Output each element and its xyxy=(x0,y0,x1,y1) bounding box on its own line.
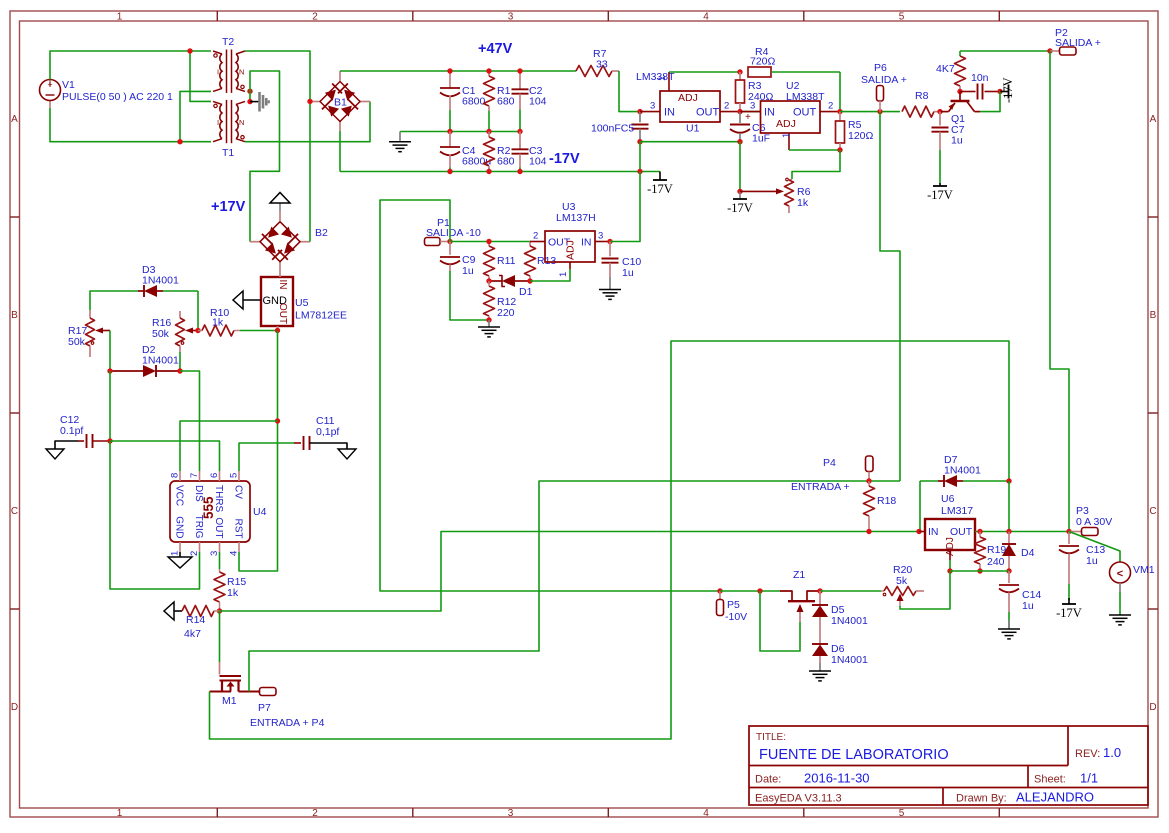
svg-text:R8: R8 xyxy=(915,90,929,102)
diode D6 1N4001 xyxy=(812,643,868,666)
svg-text:OUT: OUT xyxy=(950,526,973,538)
diode D4 xyxy=(1002,532,1035,572)
resistor R3 240ohm xyxy=(736,72,774,112)
ground below C14 xyxy=(998,620,1020,639)
wire mid rail from ground xyxy=(400,131,520,133)
svg-text:IN: IN xyxy=(928,526,939,538)
pin 3 U4 xyxy=(209,542,220,556)
svg-text:Sheet:: Sheet: xyxy=(1034,774,1066,786)
junction R15/R14 node xyxy=(217,608,222,613)
svg-text:B: B xyxy=(11,310,18,321)
wire diagonal to VM1 xyxy=(1069,532,1120,563)
resistor R19 240 xyxy=(975,532,1007,572)
ground below R12 xyxy=(478,320,500,337)
svg-text:120Ω: 120Ω xyxy=(848,130,874,142)
wire B2 bottom to U5 IN xyxy=(279,270,281,277)
connector P4 ENTRADA+ xyxy=(791,456,873,493)
junction C6 bottom xyxy=(737,139,742,144)
svg-text:1uF: 1uF xyxy=(752,133,770,145)
wire U5 OUT down to VCC rail and 555 pin4 loop xyxy=(239,331,278,572)
diode D2 1N4001 xyxy=(110,344,180,377)
ground at mid rail xyxy=(389,132,411,152)
wire P1 up-left-down to Z1 rail xyxy=(380,200,720,591)
svg-text:5: 5 xyxy=(899,808,905,819)
wire -17V bottom rail xyxy=(340,171,660,173)
svg-text:Drawn By:: Drawn By: xyxy=(956,793,1007,805)
svg-text:I: I xyxy=(217,68,219,77)
junction D2 right xyxy=(177,368,182,373)
svg-text:220: 220 xyxy=(497,307,515,319)
connector P5 -10V xyxy=(717,591,748,623)
svg-text:T2: T2 xyxy=(222,36,234,48)
wire U3 OUT rail xyxy=(450,241,530,243)
junction V1 bottom node xyxy=(177,139,182,144)
svg-text:4: 4 xyxy=(703,12,709,23)
svg-text:1/1: 1/1 xyxy=(1080,771,1098,786)
connector P3 0 A 30V xyxy=(1069,505,1112,536)
capacitor C11 0,1pf xyxy=(294,415,347,450)
svg-text:<: < xyxy=(1117,568,1123,580)
capacitor C9 1u xyxy=(440,242,476,278)
wire ADJ node to R6 top xyxy=(792,150,840,179)
resistor R18 xyxy=(864,481,897,532)
svg-text:THRS: THRS xyxy=(213,485,224,513)
svg-text:3: 3 xyxy=(750,101,755,112)
resistor R10 1k xyxy=(198,307,278,336)
junction Z1 left node xyxy=(757,588,762,593)
regulator U3 LM137H xyxy=(545,201,596,262)
wire ADJ node to R20 wiper xyxy=(900,571,950,609)
junction Q1 emitter node xyxy=(937,109,942,114)
svg-text:D: D xyxy=(11,702,18,713)
svg-text:1u: 1u xyxy=(1022,600,1034,612)
pin 2 U2 OUT xyxy=(820,101,840,112)
svg-text:B: B xyxy=(1150,310,1157,321)
junction Q1 base node xyxy=(957,89,962,94)
svg-text:IN: IN xyxy=(764,107,775,119)
capacitor C6 1uF polarized xyxy=(730,112,770,145)
voltmeter VM1 xyxy=(1110,562,1155,583)
svg-text:5: 5 xyxy=(229,473,240,478)
voltage source V1 xyxy=(40,79,174,108)
svg-text:2: 2 xyxy=(312,808,318,819)
junction U6 OUT / R19 top xyxy=(977,529,982,534)
svg-text:TITLE:: TITLE: xyxy=(756,732,786,743)
svg-text:OUT: OUT xyxy=(793,107,817,119)
svg-text:IN: IN xyxy=(277,280,288,290)
connector P2 SALIDA+ xyxy=(1050,27,1101,55)
capacitor C14 1u xyxy=(999,571,1041,628)
JFET Z1 xyxy=(780,569,820,622)
svg-text:T1: T1 xyxy=(222,147,234,159)
pin 1 U2 ADJ wire xyxy=(781,133,840,150)
capacitor C2 104 xyxy=(512,71,547,132)
junction P5 node xyxy=(717,588,722,593)
wire P6 net down to P4 rail xyxy=(880,112,900,481)
svg-text:LM338T: LM338T xyxy=(786,91,825,103)
wire P2 net down right side to P3 node xyxy=(1050,51,1069,532)
net flag -17V rotated xyxy=(1000,77,1015,103)
transformer T2 xyxy=(213,36,245,93)
svg-text:680: 680 xyxy=(497,156,515,168)
svg-text:+: + xyxy=(47,80,52,90)
svg-text:3: 3 xyxy=(209,551,220,556)
svg-text:Date:: Date: xyxy=(755,774,781,786)
svg-text:R18: R18 xyxy=(877,495,896,507)
diode D5 1N4001 xyxy=(812,591,868,643)
svg-text:P4: P4 xyxy=(823,457,836,469)
svg-text:0.1pf: 0.1pf xyxy=(60,425,83,437)
svg-text:10n: 10n xyxy=(971,72,989,84)
svg-text:VM1: VM1 xyxy=(1133,564,1155,576)
svg-text:U1: U1 xyxy=(686,123,700,135)
junction V1-T2-T1 top xyxy=(187,48,192,53)
junction R19 bottom xyxy=(977,568,982,573)
junction D4 bottom xyxy=(1006,568,1011,573)
svg-text:0,1pf: 0,1pf xyxy=(316,426,339,438)
svg-text:I: I xyxy=(217,118,219,127)
junction D4 top xyxy=(1006,529,1011,534)
net label +47V xyxy=(478,41,513,57)
junction R3 top xyxy=(737,69,742,74)
ground triangle at 555 pin1 xyxy=(168,557,192,568)
svg-text:P7: P7 xyxy=(258,702,271,714)
junction P1 node xyxy=(447,239,452,244)
potentiometer R17 50k xyxy=(68,310,110,357)
junction B1 left / T2 vertical xyxy=(307,99,312,104)
junction C12 node xyxy=(107,438,112,443)
svg-text:1: 1 xyxy=(558,272,569,277)
svg-text:U6: U6 xyxy=(941,493,955,505)
svg-text:+: + xyxy=(745,112,751,123)
svg-text:1N4001: 1N4001 xyxy=(831,615,868,627)
resistor R15 1k xyxy=(214,552,246,611)
ground triangle at C11 xyxy=(338,449,356,459)
svg-text:ENTRADA + P4: ENTRADA + P4 xyxy=(250,717,325,729)
pin 8 U4 xyxy=(170,471,181,481)
wire +47V top rail xyxy=(340,70,576,72)
svg-text:1N4001: 1N4001 xyxy=(944,465,981,477)
junction dot C3 bottom xyxy=(517,169,522,174)
wire C9 to R12 ground node xyxy=(450,271,489,320)
wire C5 node down to -17V rail xyxy=(639,142,641,172)
svg-text:2: 2 xyxy=(533,231,538,242)
diode D7 1N4001 xyxy=(920,454,1009,532)
svg-text:N: N xyxy=(239,68,244,77)
pin 1 U3 ADJ wire xyxy=(530,262,570,281)
svg-text:REV:: REV: xyxy=(1075,748,1100,760)
junction R18 bottom on IN rail xyxy=(866,529,871,534)
net flag -17V below C7 xyxy=(927,150,953,202)
svg-text:C: C xyxy=(1149,506,1156,517)
resistor R7 33 xyxy=(576,48,619,77)
svg-text:1: 1 xyxy=(117,12,123,23)
svg-text:-10V: -10V xyxy=(725,611,747,623)
svg-text:1u: 1u xyxy=(951,135,963,147)
svg-text:SALIDA -10: SALIDA -10 xyxy=(426,227,481,239)
svg-text:A: A xyxy=(1150,114,1157,125)
svg-text:1k: 1k xyxy=(227,587,239,599)
svg-text:2: 2 xyxy=(828,101,833,112)
junction U1 IN node xyxy=(637,109,642,114)
ground below VM1 xyxy=(1109,583,1131,625)
wire T1 secondary bottom to B1 right xyxy=(245,102,370,142)
svg-text:+17V: +17V xyxy=(211,199,246,215)
wire U2 OUT rail to P6/R8 xyxy=(840,111,900,113)
resistor R4 720ohm xyxy=(748,46,840,112)
wire T2 secondary top to B1 and down xyxy=(245,51,310,221)
wire R7 to U1 IN xyxy=(619,71,640,112)
pin 4 U4 xyxy=(229,542,240,556)
svg-text:1k: 1k xyxy=(797,197,809,209)
svg-text:IN: IN xyxy=(581,237,592,249)
svg-text:680: 680 xyxy=(497,96,515,108)
svg-text:D1: D1 xyxy=(519,286,533,298)
svg-text:ADJ: ADJ xyxy=(776,118,796,130)
chassis ground flag at transformer center tap xyxy=(250,92,269,112)
wire U6 OUT rail to P3 xyxy=(975,531,1069,533)
junction dots R1 xyxy=(486,68,491,134)
svg-text:6800: 6800 xyxy=(462,96,486,108)
resistor R2 680 xyxy=(484,132,515,172)
svg-text:OUT: OUT xyxy=(696,107,720,119)
junction dot C4 bottom xyxy=(447,169,452,174)
svg-text:LM317: LM317 xyxy=(941,505,973,517)
svg-text:GND: GND xyxy=(174,516,185,538)
resistor R14 4k7 with port arrow xyxy=(164,602,220,640)
svg-text:M1: M1 xyxy=(222,695,237,707)
junction P4/R18 node xyxy=(866,478,871,483)
port arrow at U5 GND xyxy=(233,291,261,309)
junction U5 OUT node xyxy=(275,326,280,333)
wire D2 right to 555 pin7 xyxy=(180,371,200,471)
svg-text:8: 8 xyxy=(170,473,181,478)
svg-text:-17V: -17V xyxy=(727,201,753,215)
junction T2 sec bottom xyxy=(247,89,252,94)
wire ADJ rail xyxy=(950,570,1009,572)
svg-text:DIS: DIS xyxy=(193,485,204,502)
ground below D6 xyxy=(809,663,831,681)
junction D1 left xyxy=(486,278,491,283)
junction D7 right node xyxy=(1006,478,1011,483)
junction P2 node xyxy=(1047,48,1052,53)
pin 5 U4 xyxy=(229,471,240,481)
wire D3 right down to R16 wiper node xyxy=(197,291,199,331)
svg-text:R14: R14 xyxy=(186,614,205,626)
svg-text:50k: 50k xyxy=(152,328,170,340)
junction D2 left xyxy=(107,368,112,373)
wire C6 to -17V flag node xyxy=(739,142,741,192)
junction D7 left on IN rail xyxy=(916,529,921,534)
wire VCC rail to 555 pin8 xyxy=(180,421,278,471)
capacitor C5 100nF xyxy=(591,112,649,142)
svg-text:2: 2 xyxy=(312,12,318,23)
connector P6 SALIDA+ xyxy=(861,62,907,112)
svg-text:3: 3 xyxy=(598,231,603,242)
capacitor C10 1u xyxy=(602,242,642,280)
svg-text:Z1: Z1 xyxy=(793,569,805,581)
pin 6 U4 xyxy=(209,471,220,481)
svg-text:-17V: -17V xyxy=(647,182,673,196)
svg-text:-17V: -17V xyxy=(927,188,953,202)
pin 2 U1 OUT wire xyxy=(720,101,760,112)
svg-text:100nFC5: 100nFC5 xyxy=(591,123,634,135)
junction D1 right / U3 ADJ xyxy=(527,278,532,283)
svg-text:2: 2 xyxy=(724,101,729,112)
wire D2 left down to C12 rail xyxy=(109,371,111,441)
svg-text:N: N xyxy=(239,118,244,127)
net flag -17V at rail end xyxy=(647,172,673,197)
svg-text:OUT: OUT xyxy=(213,517,224,538)
svg-text:1N4001: 1N4001 xyxy=(142,275,179,287)
pin 3 U1 xyxy=(640,101,660,112)
timer U4 555 xyxy=(170,481,267,542)
svg-text:1: 1 xyxy=(781,133,792,138)
svg-text:ADJ: ADJ xyxy=(565,240,577,260)
wire R16 bottom to D2 right node xyxy=(179,352,181,371)
wire R15 node to U6 IN rail xyxy=(220,532,920,612)
svg-text:1u: 1u xyxy=(462,265,474,277)
svg-text:-17V: -17V xyxy=(1001,77,1015,103)
title block xyxy=(749,726,1148,805)
wire T2 sec bottom loop to B2 left xyxy=(250,71,280,242)
pin 2 U4 xyxy=(189,542,200,556)
MOSFET M1 xyxy=(210,662,260,707)
svg-text:TRIG: TRIG xyxy=(193,515,204,539)
svg-text:2016-11-30: 2016-11-30 xyxy=(804,771,870,786)
capacitor C13 1u xyxy=(1059,532,1105,601)
svg-text:5: 5 xyxy=(899,12,905,23)
svg-text:U4: U4 xyxy=(253,506,267,518)
svg-text:720Ω: 720Ω xyxy=(750,56,776,68)
svg-text:4: 4 xyxy=(229,551,240,556)
bridge rectifier B2 xyxy=(250,211,328,270)
resistor R1 680 xyxy=(484,71,515,132)
svg-text:1.0: 1.0 xyxy=(1103,745,1121,760)
junction D5 top node xyxy=(817,588,822,593)
regulator U5 LM7812EE xyxy=(261,277,347,326)
junction R16 wiper / R10 node xyxy=(195,328,200,333)
svg-text:CV: CV xyxy=(233,485,244,499)
transistor Q1 PNP xyxy=(940,92,980,126)
pin 1 U4 GND xyxy=(170,542,181,557)
svg-text:2: 2 xyxy=(189,551,200,556)
svg-text:PULSE(0 50 ) AC 220 1: PULSE(0 50 ) AC 220 1 xyxy=(62,91,173,103)
svg-text:EasyEDA V3.11.3: EasyEDA V3.11.3 xyxy=(755,793,842,805)
junction T1 sec top / chassis xyxy=(247,99,252,104)
svg-text:0 A 30V: 0 A 30V xyxy=(1076,516,1112,528)
junction -17V rail at x640 xyxy=(637,169,642,174)
svg-text:4: 4 xyxy=(703,808,709,819)
svg-text:R13: R13 xyxy=(537,255,556,267)
wire 4K7 top rail to P2 xyxy=(960,50,1050,52)
zener diode D1 xyxy=(489,275,533,298)
svg-text:ALEJANDRO: ALEJANDRO xyxy=(1016,790,1094,805)
wire C12 rail to 555 pin6 xyxy=(110,441,220,471)
pin 1 U1 ADJ wire xyxy=(657,72,740,91)
svg-text:P5: P5 xyxy=(727,599,740,611)
capacitor C4 6800u xyxy=(440,132,491,172)
net flag -17V below C6 xyxy=(727,191,753,215)
potentiometer R6 1k xyxy=(740,178,811,213)
junction VCC rail tap xyxy=(275,418,280,423)
svg-text:LM7812EE: LM7812EE xyxy=(295,310,347,322)
resistor R13 xyxy=(525,242,557,282)
pin 2 U3 xyxy=(530,231,545,242)
svg-text:7: 7 xyxy=(189,473,200,478)
wire V1 top to T1/T2 primary xyxy=(50,51,211,101)
wire Z1 rail to R20 xyxy=(820,590,881,592)
svg-text:6: 6 xyxy=(209,473,220,478)
junction R6 wiper node xyxy=(737,189,742,194)
pin U6 ADJ wire xyxy=(949,550,951,571)
svg-text:3: 3 xyxy=(508,12,514,23)
svg-text:4K7: 4K7 xyxy=(936,63,955,75)
wire Z1 rail xyxy=(720,590,780,592)
resistor R11 xyxy=(484,242,516,282)
junction 10n right node xyxy=(997,89,1002,94)
capacitor C12 0.1pf xyxy=(55,414,110,449)
ground below C10 xyxy=(599,277,621,299)
svg-text:1u: 1u xyxy=(1086,555,1098,567)
wire C12 node down to 555 pin2 xyxy=(110,441,200,589)
svg-text:C: C xyxy=(11,506,18,517)
transformer T1 xyxy=(213,100,245,159)
svg-text:D: D xyxy=(1149,702,1156,713)
wire V1 bottom xyxy=(50,91,211,141)
svg-text:33: 33 xyxy=(596,59,608,71)
resistor R12 220 xyxy=(484,281,517,320)
pin 3 U2 xyxy=(740,101,761,112)
net label -17V xyxy=(549,151,580,167)
svg-text:OUT: OUT xyxy=(277,303,288,324)
potentiometer R20 5k xyxy=(881,564,924,606)
junction U2 OUT node xyxy=(837,109,842,114)
regulator U2 LM338T xyxy=(761,80,826,133)
connector P7 ENTRADA + P4 xyxy=(250,688,325,730)
svg-text:RST: RST xyxy=(233,519,244,539)
wire M1 source bottom rail to D7 node xyxy=(210,341,1010,739)
svg-text:LM137H: LM137H xyxy=(556,212,596,224)
wire M1 drain rail to P4 rail xyxy=(249,481,900,692)
wire 555 pin5 to C11 xyxy=(239,443,294,471)
pin 3 U3 xyxy=(595,231,610,242)
svg-text:-17V: -17V xyxy=(549,151,580,167)
svg-text:104: 104 xyxy=(529,96,547,108)
diode D3 1N4001 xyxy=(90,264,198,310)
svg-text:1k: 1k xyxy=(212,317,224,329)
pin U6 IN stub xyxy=(919,531,925,533)
svg-text:5k: 5k xyxy=(896,575,908,587)
capacitor C3 104 xyxy=(512,132,547,172)
capacitor 10n xyxy=(960,72,1000,100)
net flag -17V below C13 xyxy=(1056,598,1082,620)
junction P6 node xyxy=(877,109,882,114)
svg-text:1N4001: 1N4001 xyxy=(142,355,179,367)
potentiometer R16 50k xyxy=(152,311,198,352)
wire C5-C6 rail xyxy=(640,141,740,143)
bridge rectifier B1 xyxy=(310,71,370,131)
junction dots C1 xyxy=(447,68,452,134)
regulator U1 LM338T xyxy=(636,71,720,135)
capacitor C1 6800 xyxy=(440,71,486,132)
svg-text:ENTRADA +: ENTRADA + xyxy=(791,481,850,493)
svg-text:-17V: -17V xyxy=(1056,606,1082,620)
resistor 4K7 xyxy=(936,51,966,92)
junction ADJ node xyxy=(947,568,952,573)
svg-text:1: 1 xyxy=(657,76,668,81)
svg-text:VCC: VCC xyxy=(174,485,185,506)
